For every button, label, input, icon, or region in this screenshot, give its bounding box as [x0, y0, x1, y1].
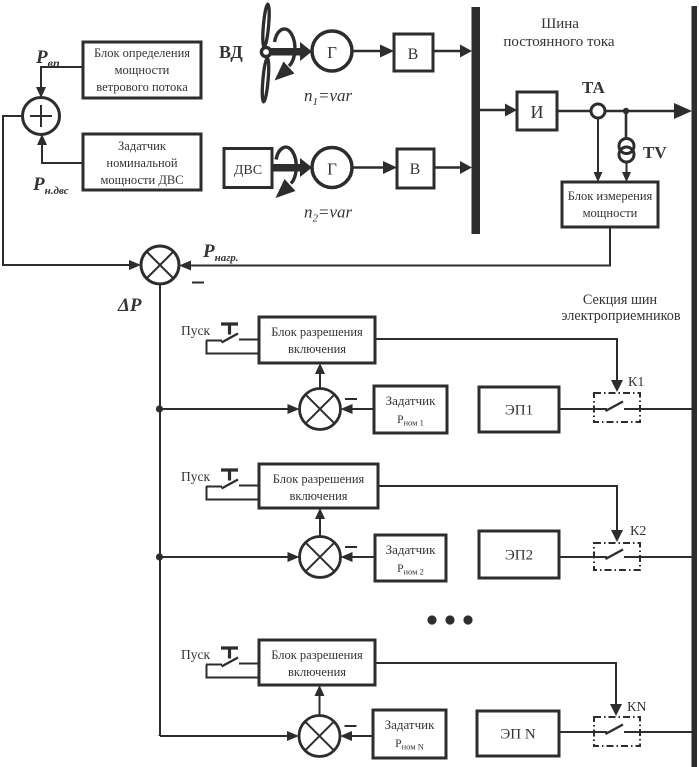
comparison junction SN3 (X circle, row N) — [299, 716, 340, 757]
arrow DC bus to inverter И — [480, 104, 517, 117]
contactor K2 (dashed box with switch) — [594, 543, 640, 570]
svg-text:ЭП2: ЭП2 — [505, 548, 533, 564]
svg-text:ВД: ВД — [219, 42, 243, 62]
label Pн.двс — [32, 174, 69, 197]
arrow main wire to comparison (row 2) — [160, 552, 300, 562]
arrow G1 to B1 — [352, 45, 394, 58]
wind turbine propeller — [261, 4, 271, 102]
label Секция шин электроприемников — [561, 292, 680, 324]
block: Блок разрешения включения (row 2) — [259, 464, 378, 508]
svg-text:Блок разрешения: Блок разрешения — [271, 325, 363, 339]
svg-text:В: В — [410, 161, 421, 178]
svg-text:Шина: Шина — [541, 16, 579, 32]
label Pвп — [35, 47, 60, 70]
svg-text:ДВС: ДВС — [234, 163, 262, 178]
arrow B1 to DC bus — [433, 45, 472, 58]
comparison junction S13 (X circle, row 1) — [300, 389, 341, 430]
DC bus bar — [472, 7, 481, 234]
wire KN to consumers bus — [640, 731, 692, 733]
svg-text:Задатчик: Задатчик — [385, 717, 436, 732]
svg-text:ЭП1: ЭП1 — [505, 403, 533, 419]
junction node on main wire (row 1) — [156, 405, 163, 412]
wire: power block to load summer S2 (Pнагр feedback) — [179, 227, 610, 271]
label K2 — [630, 524, 646, 539]
wire: разрешение block to contactor K1 coil (with down arrow) — [375, 339, 623, 392]
svg-text:Задатчик: Задатчик — [118, 139, 167, 153]
svg-text:мощности: мощности — [115, 63, 170, 77]
label n2=var — [304, 203, 353, 225]
svg-text:номинальной: номинальной — [106, 156, 178, 170]
consumers bus bar (right) — [692, 6, 698, 767]
label Пуск (row 1) — [181, 323, 210, 338]
svg-text:ветрового потока: ветрового потока — [96, 80, 188, 94]
svg-text:электроприемников: электроприемников — [561, 308, 680, 324]
wire: задатчик to summer S1 — [37, 134, 83, 163]
svg-text:Задатчик: Задатчик — [386, 542, 437, 557]
push button SB2 — [206, 470, 259, 500]
label Пуск (row N) — [181, 647, 210, 662]
svg-text:включения: включения — [288, 665, 346, 679]
consumer block ЭП1 — [479, 387, 559, 432]
shaft arrow ВД to Г — [269, 42, 312, 61]
minus sign (row 2) — [345, 546, 357, 548]
svg-text:Пуск: Пуск — [181, 647, 210, 662]
svg-text:n1=var: n1=var — [304, 86, 353, 108]
block: Блок разрешения включения (row N) — [259, 640, 375, 685]
block: Блок измерения мощности — [562, 182, 658, 227]
push button SBN — [206, 648, 259, 678]
wire: summer S1 to load summer S2 (left feedback) — [3, 116, 141, 270]
svg-text:включения: включения — [289, 489, 347, 503]
block U1: Блок определения мощности ветрового потока — [83, 42, 201, 98]
wire ЭП2 to K2 — [559, 556, 594, 558]
arrow: comparison to разрешение block (row 2) — [315, 508, 325, 537]
wire: разрешение block to contactor K2 coil (with down arrow) — [378, 486, 623, 542]
minus sign (row N) — [345, 725, 357, 727]
svg-text:ΔP: ΔP — [117, 295, 142, 316]
summing junction S1 (+) — [23, 98, 60, 135]
svg-text:Секция шин: Секция шин — [583, 292, 658, 308]
generator G1 (Г) — [312, 31, 352, 71]
svg-text:Блок разрешения: Блок разрешения — [273, 472, 365, 486]
label TV — [643, 143, 667, 162]
label KN — [627, 700, 646, 715]
rotation arrow n1 — [275, 29, 295, 81]
svg-text:ТV: ТV — [643, 143, 667, 162]
minus sign (row 1) — [345, 398, 357, 400]
svg-text:постоянного тока: постоянного тока — [503, 34, 615, 50]
arrow задатчик to comparison (row N) — [340, 731, 373, 741]
arrow main wire corner to comparison (row N) — [160, 731, 299, 741]
label Pнагр. — [202, 241, 239, 264]
wire TA to power measurement block — [594, 118, 603, 182]
rectifier B2 (В) — [397, 149, 434, 188]
svg-text:мощности ДВС: мощности ДВС — [100, 173, 183, 187]
arrow main wire to comparison (row 1) — [160, 404, 300, 414]
svg-text:Г: Г — [327, 160, 337, 179]
arrow: comparison to разрешение block (row N) — [315, 685, 325, 716]
label n1=var — [304, 86, 353, 108]
arrow G2 to B2 — [352, 161, 397, 174]
svg-text:ЭП N: ЭП N — [500, 727, 535, 743]
block: Задатчик PномN — [373, 710, 446, 758]
wire K1 to consumers bus — [640, 408, 692, 410]
svg-text:В: В — [408, 46, 419, 63]
inverter U2 (И) — [517, 92, 557, 130]
svg-text:К1: К1 — [628, 375, 644, 390]
wire ЭП1 to K1 — [559, 408, 594, 410]
load summing junction S2 (X) — [141, 246, 179, 284]
arrow задатчик to comparison (row 2) — [341, 552, 376, 562]
arrow задатчик to comparison (row 1) — [341, 404, 375, 414]
current transformer TA — [591, 104, 605, 118]
wire: разрешение block to contactor KN coil (with down arrow) — [375, 663, 622, 716]
label K1 — [628, 375, 644, 390]
arrow B2 to DC bus — [434, 161, 472, 174]
svg-text:И: И — [531, 102, 544, 122]
contactor KN (dashed box with switch) — [594, 717, 640, 746]
block: Задатчик номинальной мощности ДВС — [83, 134, 201, 190]
shaft arrow ДВС to Г — [272, 158, 312, 177]
arrow: comparison to разрешение block (row 1) — [315, 363, 325, 389]
svg-text:n2=var: n2=var — [304, 203, 353, 225]
label ВД — [219, 42, 243, 62]
junction node on measurement tap — [623, 108, 629, 114]
svg-text:КN: КN — [627, 700, 646, 715]
push button SB1 — [206, 324, 259, 354]
svg-text:ТА: ТА — [582, 78, 605, 97]
consumer block ЭП2 — [479, 531, 559, 578]
wire TV to power measurement block — [622, 162, 631, 182]
main distribution wire (vertical from S2) — [159, 284, 162, 736]
rectifier B1 (В) — [394, 34, 433, 71]
svg-text:Блок определения: Блок определения — [94, 46, 190, 60]
contactor K1 (dashed box with switch) — [594, 393, 640, 422]
svg-text:Г: Г — [327, 43, 337, 62]
block: Блок разрешения включения (row 1) — [259, 317, 375, 363]
label Пуск (row 2) — [181, 469, 210, 484]
wire И to consumers bus with arrowhead — [557, 103, 692, 119]
minus sign at S2 — [192, 282, 204, 284]
comparison junction S23 (X circle, row 2) — [300, 537, 341, 578]
block: Задатчик Pном2 — [375, 535, 446, 581]
svg-text:Блок измерения: Блок измерения — [568, 189, 653, 203]
svg-text:Пуск: Пуск — [181, 469, 210, 484]
block ДВС — [224, 149, 272, 188]
wire ЭПN to KN — [559, 731, 594, 733]
wire: wind block to summer S1 — [36, 67, 83, 98]
label Шина постоянного тока — [503, 16, 615, 50]
consumer block ЭПN — [477, 711, 559, 756]
svg-text:Задатчик: Задатчик — [386, 393, 437, 408]
svg-text:включения: включения — [288, 342, 346, 356]
block: Задатчик Pном1 — [374, 386, 447, 433]
ellipsis dots — [427, 615, 472, 624]
svg-text:К2: К2 — [630, 524, 646, 539]
svg-text:мощности: мощности — [583, 206, 638, 220]
svg-text:Блок разрешения: Блок разрешения — [271, 648, 363, 662]
label ΔP — [117, 295, 142, 316]
wire junction to TV — [625, 111, 628, 140]
junction node on main wire (row 2) — [156, 553, 163, 560]
generator G2 (Г) — [312, 148, 352, 188]
rotation arrow n2 — [276, 147, 297, 198]
wire K2 to consumers bus — [640, 556, 692, 558]
voltage transformer TV — [619, 139, 634, 163]
svg-text:Пуск: Пуск — [181, 323, 210, 338]
label TA — [582, 78, 605, 97]
